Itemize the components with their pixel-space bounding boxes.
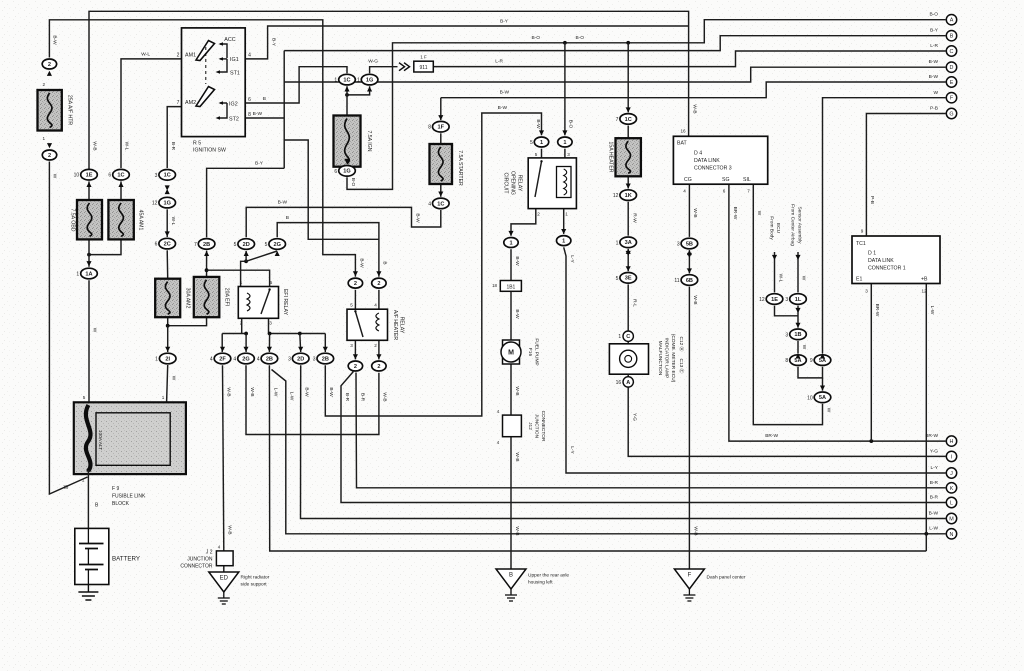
svg-text:3: 3 xyxy=(350,343,353,348)
fuse 7.5A IGN xyxy=(334,116,361,167)
terminal N xyxy=(946,529,956,539)
wire starter fuse to 1C xyxy=(440,184,442,197)
wire W-B 2F to J2 xyxy=(223,365,224,551)
svg-text:10: 10 xyxy=(74,173,80,179)
wire B-W starter bus xyxy=(441,82,946,98)
arrow 5B 6B xyxy=(687,253,692,258)
svg-text:911: 911 xyxy=(420,65,428,71)
connector 1C starter xyxy=(428,198,449,209)
svg-text:BATTERY: BATTERY xyxy=(112,556,140,563)
wire W from airbag sensor xyxy=(797,252,799,292)
svg-text:1C: 1C xyxy=(625,117,632,123)
svg-text:AM1: AM1 xyxy=(185,53,196,59)
terminal D xyxy=(946,62,956,72)
wire relay oval to box R xyxy=(564,149,566,158)
connector DLC3 box xyxy=(673,136,767,184)
svg-text:25A A/F HTR: 25A A/F HTR xyxy=(67,95,73,126)
arrow into 3A xyxy=(626,249,631,254)
svg-text:B-W: B-W xyxy=(929,74,939,80)
wire starter fuse feed xyxy=(440,98,442,120)
svg-text:INDICATOR LAMP: INDICATOR LAMP xyxy=(664,338,670,378)
arrow into 2 af right bot xyxy=(376,354,381,359)
svg-text:FUSIBLE LINK: FUSIBLE LINK xyxy=(112,494,146,500)
svg-text:Sensor Assembly: Sensor Assembly xyxy=(797,206,803,244)
svg-text:2: 2 xyxy=(177,53,180,59)
svg-text:D 1: D 1 xyxy=(868,251,876,257)
svg-text:CONNECTOR: CONNECTOR xyxy=(540,411,546,442)
node B-O junction 1 xyxy=(563,41,567,45)
wire 1C heater to fuse xyxy=(627,126,629,139)
wire B-W hub to terminal D xyxy=(284,67,945,82)
svg-text:2: 2 xyxy=(374,343,377,348)
svg-text:W-B: W-B xyxy=(225,387,231,396)
arrow into 5B xyxy=(687,250,692,255)
svg-text:C: C xyxy=(950,49,954,55)
wire Y-G to terminal I xyxy=(628,387,945,456)
wire 1C to 45A fuse xyxy=(120,181,122,200)
terminal L xyxy=(946,497,956,507)
wire 1A to fusible link block xyxy=(88,280,90,402)
svg-text:1B: 1B xyxy=(794,332,801,338)
svg-text:B-W: B-W xyxy=(498,105,508,111)
wire 2C to 30A fuse xyxy=(166,250,169,278)
connector 1 co right xyxy=(558,137,572,147)
wire meter pin C xyxy=(627,341,629,343)
relay A/F heater switch xyxy=(355,312,363,338)
wire A/F relay pin5 xyxy=(354,290,356,309)
wire 5A pair join xyxy=(798,367,823,378)
svg-text:L-R: L-R xyxy=(930,43,938,49)
connector 5B xyxy=(677,238,698,249)
svg-text:W-G: W-G xyxy=(368,59,378,65)
wire relay pin1 to 1 oval xyxy=(563,209,565,234)
ground IF xyxy=(674,569,704,601)
fuse 45A AM1 xyxy=(108,200,133,239)
svg-text:7: 7 xyxy=(177,100,180,106)
arrow into 2B2 row2 xyxy=(323,347,328,352)
svg-text:1: 1 xyxy=(357,78,360,84)
fuse 30A AM2 xyxy=(155,279,180,318)
fuse 15A HEATER xyxy=(616,138,641,176)
svg-text:W-L: W-L xyxy=(777,274,783,283)
wire 1E out xyxy=(775,306,799,316)
arrow into 1 pump xyxy=(508,231,513,236)
svg-text:CONNECTOR 1: CONNECTOR 1 xyxy=(868,266,906,272)
arrow into 2B row2 xyxy=(267,347,272,352)
arrow into 2 af right xyxy=(376,271,381,276)
arrow into 1E body xyxy=(772,255,777,260)
svg-text:FUEL PUMP: FUEL PUMP xyxy=(534,338,540,365)
svg-text:8: 8 xyxy=(248,112,251,118)
svg-text:B-O: B-O xyxy=(575,35,584,41)
svg-text:F16: F16 xyxy=(527,348,533,357)
arrow into 2 af left xyxy=(353,271,358,276)
svg-text:6: 6 xyxy=(248,97,251,103)
wire to 2G row2 xyxy=(245,334,247,353)
wire to connector 2I xyxy=(167,326,169,352)
svg-text:B-W: B-W xyxy=(514,309,520,319)
svg-text:B-Y: B-Y xyxy=(500,19,509,25)
svg-text:M: M xyxy=(949,517,954,523)
wire EFI pin1 up xyxy=(241,261,247,286)
svg-text:B-O: B-O xyxy=(531,35,540,41)
svg-text:4: 4 xyxy=(683,189,686,194)
svg-text:RELAY: RELAY xyxy=(399,317,405,334)
arrow into 1 co left xyxy=(539,130,544,135)
svg-text:ECU: ECU xyxy=(775,223,781,234)
connector 2B xyxy=(194,239,215,250)
connector 2D xyxy=(234,239,255,250)
svg-text:R-W: R-W xyxy=(632,213,638,223)
arrow into 2G row2 xyxy=(243,347,248,352)
connector 1E xyxy=(74,169,98,180)
svg-text:W: W xyxy=(170,376,176,381)
arrow into 1C ign xyxy=(344,86,349,91)
arrow into 2C xyxy=(165,231,170,236)
svg-text:ACC: ACC xyxy=(224,37,235,43)
svg-text:4: 4 xyxy=(248,53,251,59)
wire B-W 2B2 to circuit opening relay xyxy=(325,113,541,416)
svg-text:RELAY: RELAY xyxy=(517,175,523,192)
terminal K xyxy=(946,483,956,493)
svg-text:B: B xyxy=(509,573,513,579)
connector 2G xyxy=(265,239,286,250)
wire B-O to circuit opening relay xyxy=(564,43,566,136)
fusible link block xyxy=(74,402,186,474)
wire W SIL to 5A chain xyxy=(753,184,822,424)
arrow into 2 bottom xyxy=(47,143,52,148)
svg-text:5A: 5A xyxy=(819,358,826,364)
svg-text:B-R: B-R xyxy=(930,480,939,486)
svg-text:L-Y: L-Y xyxy=(569,255,575,263)
svg-text:CONNECTOR 3: CONNECTOR 3 xyxy=(694,166,732,172)
svg-text:side support: side support xyxy=(241,582,268,588)
arrow into 1B b xyxy=(795,323,800,328)
svg-text:6: 6 xyxy=(155,242,158,248)
svg-text:B: B xyxy=(286,215,289,221)
fuse 7.5A STARTER xyxy=(430,144,453,184)
wire relay pin2 to fuel pump xyxy=(511,209,536,236)
svg-text:1L: 1L xyxy=(795,297,802,303)
arrow into 2F xyxy=(220,347,225,352)
svg-text:B-W: B-W xyxy=(514,256,520,266)
wire B-R to terminal L xyxy=(341,372,946,503)
ground ED xyxy=(209,572,239,604)
svg-text:W-B: W-B xyxy=(692,104,698,113)
svg-text:C: C xyxy=(626,334,630,340)
arrow into 1K xyxy=(626,184,631,189)
wire relay oval to box L xyxy=(541,149,543,158)
svg-text:B-W: B-W xyxy=(52,35,58,45)
relay circuit opening switch xyxy=(535,162,542,198)
arrow 1C am2 down xyxy=(165,185,170,190)
svg-text:15A HEATER: 15A HEATER xyxy=(608,141,614,172)
wire B-O to 15A heater fuse xyxy=(627,43,629,113)
svg-text:DATA LINK: DATA LINK xyxy=(694,158,720,164)
arrow into 1E xyxy=(86,182,91,187)
arrow into 2B xyxy=(204,251,209,256)
arrow 3A 3E mid xyxy=(626,251,631,256)
node fuse join xyxy=(87,253,91,257)
svg-text:B-Y: B-Y xyxy=(270,38,276,47)
wire meter pin A xyxy=(627,374,629,377)
svg-text:5: 5 xyxy=(83,395,86,400)
svg-text:M: M xyxy=(508,350,514,357)
arrow into 6B xyxy=(687,268,692,273)
arrow into 5A 9 xyxy=(820,353,825,358)
svg-text:+B: +B xyxy=(921,277,928,283)
connector 2 af right bottom xyxy=(372,361,386,371)
connector 5A 9 xyxy=(810,355,831,366)
svg-text:IG1: IG1 xyxy=(230,57,239,63)
relay EFI box xyxy=(238,287,278,319)
svg-text:IGNITION SW: IGNITION SW xyxy=(193,148,226,154)
wire diagonal to 2G xyxy=(246,251,277,261)
svg-text:W-B: W-B xyxy=(514,452,520,461)
ignition switch lever AM2 xyxy=(196,87,215,107)
svg-text:2: 2 xyxy=(42,82,45,87)
svg-text:5: 5 xyxy=(350,303,353,308)
svg-text:SG: SG xyxy=(722,177,730,183)
connector 1C am1 xyxy=(108,169,129,180)
svg-text:B-R: B-R xyxy=(344,393,350,402)
noise filter 911 box xyxy=(414,61,434,72)
svg-text:BAT: BAT xyxy=(677,141,688,147)
connector 2F xyxy=(210,353,231,364)
svg-text:1: 1 xyxy=(155,357,158,363)
svg-text:1: 1 xyxy=(334,78,337,84)
terminal I xyxy=(946,451,956,461)
fusible link main ALT xyxy=(86,405,91,471)
svg-text:1: 1 xyxy=(563,140,566,146)
node fusible link bottom xyxy=(87,468,91,472)
connector 1G ign xyxy=(357,74,378,85)
connector 1B xyxy=(785,329,806,340)
svg-text:W-L: W-L xyxy=(170,217,176,226)
svg-text:B-O: B-O xyxy=(929,12,938,18)
terminal H xyxy=(946,436,956,446)
svg-text:B-W: B-W xyxy=(304,387,310,397)
svg-text:2: 2 xyxy=(377,364,380,370)
fuel pump motor xyxy=(503,340,520,364)
svg-text:2I: 2I xyxy=(165,356,170,362)
svg-text:7: 7 xyxy=(616,117,619,123)
svg-text:7: 7 xyxy=(747,189,750,194)
svg-text:Y-G: Y-G xyxy=(632,413,638,421)
svg-text:2B: 2B xyxy=(266,356,273,362)
svg-text:1C: 1C xyxy=(437,201,444,207)
svg-text:3: 3 xyxy=(785,297,788,303)
svg-text:1B1: 1B1 xyxy=(506,284,515,290)
svg-text:JUNCTION: JUNCTION xyxy=(187,557,213,563)
svg-text:AM2: AM2 xyxy=(185,100,196,106)
wire 1E to OBD fuse xyxy=(88,181,90,200)
svg-text:B-W: B-W xyxy=(929,59,939,65)
svg-text:W: W xyxy=(801,345,807,350)
svg-text:OPENING: OPENING xyxy=(510,171,516,195)
connector 5A 10 xyxy=(807,392,831,403)
svg-text:2: 2 xyxy=(377,281,380,287)
svg-text:4: 4 xyxy=(257,357,260,363)
svg-text:2: 2 xyxy=(240,321,243,326)
meter MIL box xyxy=(609,344,648,374)
svg-text:18: 18 xyxy=(492,283,497,288)
svg-text:3: 3 xyxy=(677,242,680,248)
svg-text:1E: 1E xyxy=(771,297,778,303)
svg-text:12: 12 xyxy=(152,201,158,207)
svg-text:3: 3 xyxy=(865,289,868,294)
wire B-W pump 1 xyxy=(510,249,512,280)
terminal F xyxy=(946,93,956,103)
svg-text:2G: 2G xyxy=(242,356,249,362)
svg-text:5: 5 xyxy=(535,152,538,157)
svg-text:CIRCUIT: CIRCUIT xyxy=(503,172,509,194)
svg-text:1: 1 xyxy=(162,395,165,400)
connector 1A xyxy=(76,268,97,279)
wire 2B to 20A fuse xyxy=(206,251,208,277)
relay circuit opening box xyxy=(528,158,576,209)
svg-text:20A EFI: 20A EFI xyxy=(224,288,230,306)
svg-text:2B: 2B xyxy=(203,242,210,248)
node fuse bottom join xyxy=(166,324,170,328)
relay EFI switch xyxy=(261,290,270,314)
connector 2I xyxy=(155,353,176,364)
battery xyxy=(75,528,109,584)
wire B-W 2D to terminal M xyxy=(301,365,946,518)
wire BR-W SG to terminal H xyxy=(729,184,946,441)
svg-text:B-W: B-W xyxy=(359,258,365,268)
wire B-R to terminal K xyxy=(356,373,946,488)
svg-text:2B: 2B xyxy=(322,356,329,362)
svg-text:1G: 1G xyxy=(163,201,170,207)
svg-text:B-R: B-R xyxy=(170,142,176,151)
wire 1G to 2C xyxy=(166,209,168,237)
wire 3A to 3E xyxy=(627,249,629,271)
svg-text:2D: 2D xyxy=(297,356,304,362)
svg-text:W-B: W-B xyxy=(514,526,520,535)
svg-text:4: 4 xyxy=(233,357,236,363)
svg-text:7.5A STARTER: 7.5A STARTER xyxy=(457,150,463,186)
svg-text:2F: 2F xyxy=(219,356,226,362)
arrow into 1 ly xyxy=(561,229,566,234)
arrow into 5A 10 xyxy=(820,386,825,391)
wire 2I to fusible link xyxy=(167,365,168,402)
arrow 1G am2 up xyxy=(165,189,170,194)
ignition switch contact ST2 xyxy=(220,103,227,118)
svg-text:G: G xyxy=(949,112,953,118)
wire W-B CG to 5B xyxy=(688,184,690,237)
svg-text:JUNCTION: JUNCTION xyxy=(534,414,540,439)
svg-text:5A: 5A xyxy=(794,358,801,364)
svg-text:L-W: L-W xyxy=(289,392,295,401)
svg-text:2D: 2D xyxy=(243,242,250,248)
svg-text:B-O: B-O xyxy=(568,120,574,129)
svg-text:30A AM2: 30A AM2 xyxy=(185,288,191,309)
wire W to terminal F xyxy=(823,98,946,354)
arrow into 3E xyxy=(626,266,631,271)
svg-text:5: 5 xyxy=(270,280,273,285)
svg-text:2: 2 xyxy=(537,212,540,217)
wire EFI pin2 down xyxy=(241,318,243,333)
svg-text:1: 1 xyxy=(616,240,619,246)
svg-text:1F: 1F xyxy=(438,125,445,131)
node pin3 junction b xyxy=(298,332,302,336)
svg-text:2: 2 xyxy=(48,62,51,68)
terminal A xyxy=(946,15,956,25)
svg-text:B-O: B-O xyxy=(350,178,356,187)
wire B-R AM2 xyxy=(167,107,181,168)
svg-text:5: 5 xyxy=(265,242,268,248)
svg-text:L-Y: L-Y xyxy=(931,465,939,471)
svg-text:W: W xyxy=(64,485,69,491)
svg-text:W-B: W-B xyxy=(227,525,233,534)
wire 1B to 5A xyxy=(797,341,799,354)
svg-text:Right radiator: Right radiator xyxy=(241,575,270,581)
svg-text:B-Y: B-Y xyxy=(255,161,264,167)
svg-text:3: 3 xyxy=(269,321,272,326)
svg-text:BR-W: BR-W xyxy=(765,433,778,439)
svg-text:1: 1 xyxy=(540,140,543,146)
node IGN fuse top xyxy=(345,93,349,97)
connector 1C am2 xyxy=(155,170,176,181)
svg-text:12: 12 xyxy=(921,289,927,294)
wire 2G to A/F relay coil xyxy=(277,223,379,277)
svg-text:R 5: R 5 xyxy=(193,141,201,147)
svg-text:B-W: B-W xyxy=(278,200,288,206)
wire B-W from ST2 xyxy=(245,117,284,119)
terminal B xyxy=(946,31,956,41)
svg-text:1C: 1C xyxy=(164,173,171,179)
connector 3A xyxy=(616,237,637,248)
node EFI relay coil tap xyxy=(205,268,209,272)
svg-text:E: E xyxy=(950,80,954,86)
svg-text:BR-W: BR-W xyxy=(925,433,938,439)
wire join to 5A 10 xyxy=(822,378,824,391)
arrow ign fuse out xyxy=(344,159,349,164)
svg-text:3: 3 xyxy=(785,332,788,338)
arrow into 1B a xyxy=(795,308,800,313)
wire B-Y to terminal B xyxy=(284,36,945,51)
wire fuse bottoms join xyxy=(168,317,207,326)
svg-text:5B: 5B xyxy=(686,241,693,247)
svg-text:B-Y: B-Y xyxy=(930,28,939,34)
connector 1K heater xyxy=(613,190,637,201)
svg-text:L-W: L-W xyxy=(929,306,935,315)
terminal G xyxy=(946,108,956,118)
connector 5A 8 xyxy=(785,355,806,366)
arrow into 1G ign out xyxy=(344,159,349,164)
svg-text:16: 16 xyxy=(616,380,622,386)
svg-text:2: 2 xyxy=(48,153,51,159)
terminal C xyxy=(946,46,956,56)
svg-text:H: H xyxy=(950,439,954,445)
arrow into 1C starter xyxy=(438,192,443,197)
svg-text:housing left: housing left xyxy=(528,580,553,586)
svg-text:E1: E1 xyxy=(856,277,862,283)
connector 1 ly xyxy=(557,236,571,246)
connector 2B row2 xyxy=(257,353,278,364)
svg-text:K: K xyxy=(950,486,954,492)
svg-text:1: 1 xyxy=(565,212,568,217)
connector 1F starter xyxy=(428,121,449,132)
svg-text:ST2: ST2 xyxy=(229,117,239,123)
wire W-L from body ECU xyxy=(774,252,776,292)
svg-text:7.5A IGN: 7.5A IGN xyxy=(366,130,372,151)
svg-text:W: W xyxy=(756,211,762,216)
arrow into 1C am1 xyxy=(118,182,123,187)
svg-text:CG: CG xyxy=(684,177,692,183)
svg-text:BLOCK: BLOCK xyxy=(112,501,130,507)
